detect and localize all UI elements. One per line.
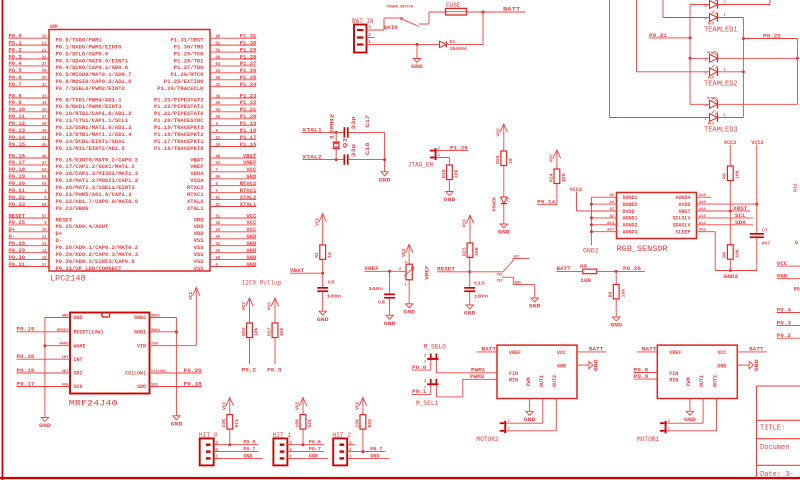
title block xyxy=(757,386,800,479)
svg-text:48: 48 xyxy=(216,114,221,120)
svg-text:RESET: RESET xyxy=(9,213,26,219)
node BATT from right driver VCC xyxy=(737,347,767,353)
svg-text:1: 1 xyxy=(216,456,219,460)
capacitor C6 100n xyxy=(369,271,396,305)
pin P1.23/PIPESTAT2 (36) right xyxy=(154,93,256,103)
svg-text:M_SEL1: M_SEL1 xyxy=(416,400,439,407)
wire right driver OUT2 to MOTOR1 xyxy=(667,399,717,431)
wire left driver OUT1 to MOTOR2 xyxy=(506,399,543,424)
svg-text:P1.22/PIPESTAT1: P1.22/PIPESTAT1 xyxy=(154,104,204,110)
svg-text:M_SEL0: M_SEL0 xyxy=(424,344,447,351)
svg-text:43: 43 xyxy=(216,220,221,226)
pin P1.16/TRACEPKT0 (16) right xyxy=(154,142,256,152)
svg-text:Green: Green xyxy=(707,50,717,54)
svg-text:VBAT: VBAT xyxy=(243,153,257,159)
label TEAMLED1 xyxy=(704,27,738,35)
svg-text:VCC: VCC xyxy=(557,350,566,356)
svg-text:60: 60 xyxy=(216,54,221,60)
wire MRF left ground rail xyxy=(43,318,46,418)
svg-text:P0.14/DCD1/EINT1/SDA1: P0.14/DCD1/EINT1/SDA1 xyxy=(56,139,125,145)
svg-text:R8: R8 xyxy=(722,252,728,258)
svg-text:100n: 100n xyxy=(369,286,384,292)
svg-text:VCC: VCC xyxy=(462,219,468,228)
svg-text:D-: D- xyxy=(56,238,63,244)
wire BATT net top xyxy=(467,5,526,44)
svg-text:DVDD: DVDD xyxy=(623,209,635,215)
schematic frame bottom border xyxy=(0,477,800,479)
svg-text:35: 35 xyxy=(42,107,47,113)
svg-text:GND: GND xyxy=(317,317,329,323)
svg-text:10K: 10K xyxy=(735,249,741,258)
svg-text:P0.2/SCL0/CAP0.0: P0.2/SCL0/CAP0.0 xyxy=(56,51,109,57)
LED TEAMLED3 green xyxy=(705,96,718,109)
svg-text:P0.26: P0.26 xyxy=(623,266,641,272)
svg-text:R0: R0 xyxy=(794,287,800,293)
svg-text:A17: A17 xyxy=(607,229,615,233)
pin P0.30 (15) left xyxy=(9,255,135,265)
svg-text:29: 29 xyxy=(42,68,47,74)
svg-text:61: 61 xyxy=(216,195,221,201)
svg-text:2: 2 xyxy=(44,195,46,201)
svg-text:VCC: VCC xyxy=(295,401,301,410)
pin P1.21/PIPESTAT0 (44) right xyxy=(154,107,256,117)
svg-text:C18: C18 xyxy=(365,142,371,155)
wire SLEEP to GND2 row xyxy=(715,232,757,281)
svg-text:TEAMLED3: TEAMLED3 xyxy=(704,126,738,134)
svg-text:SDASLV: SDASLV xyxy=(672,223,690,229)
pin INT MRF left xyxy=(17,356,83,363)
svg-text:BATT: BATT xyxy=(642,347,657,353)
svg-text:XRST: XRST xyxy=(733,206,748,212)
svg-text:10K: 10K xyxy=(354,419,360,428)
svg-text:GND: GND xyxy=(594,359,600,371)
svg-text:AVDD: AVDD xyxy=(678,202,690,208)
svg-text:SDI: SDI xyxy=(74,371,83,377)
LED TEAMLED2 red xyxy=(705,65,726,80)
svg-text:P1.30: P1.30 xyxy=(240,40,257,46)
svg-text:24: 24 xyxy=(216,68,221,74)
svg-text:P0.7: P0.7 xyxy=(243,447,255,453)
wire P0.26 to R6 xyxy=(615,271,617,284)
svg-text:P1.27/TDO: P1.27/TDO xyxy=(174,65,204,71)
node GND right edge xyxy=(777,274,800,280)
svg-text:BATT: BATT xyxy=(589,347,604,353)
svg-text:P0.12/DSR1/MAT1.0/AD1.3: P0.12/DSR1/MAT1.0/AD1.3 xyxy=(56,125,132,131)
svg-text:P0.22: P0.22 xyxy=(9,195,26,201)
svg-text:SCK: SCK xyxy=(74,384,83,390)
wire M_SEL1 to RIN xyxy=(436,379,497,397)
svg-text:P0.16: P0.16 xyxy=(9,153,26,159)
svg-text:VDD: VDD xyxy=(194,217,204,223)
svg-text:VCC: VCC xyxy=(246,213,257,219)
wire left driver OUT2 to MOTOR2 xyxy=(506,399,556,431)
pin P1.19/TRACEPKT3 (4) right xyxy=(154,121,256,131)
svg-text:Date: 3-: Date: 3- xyxy=(760,471,794,479)
svg-text:Red: Red xyxy=(708,75,714,79)
svg-text:P1.20/TRACESYNC: P1.20/TRACESYNC xyxy=(154,118,204,124)
svg-text:P0.22: P0.22 xyxy=(763,33,781,39)
node GND2 right edge xyxy=(795,240,798,246)
svg-text:R23: R23 xyxy=(461,247,467,256)
svg-text:25: 25 xyxy=(216,248,221,254)
svg-text:GND1: GND1 xyxy=(151,329,161,333)
wire JTAG_EN pin1 to R10 xyxy=(437,158,450,166)
svg-text:P1.26: P1.26 xyxy=(450,145,468,151)
svg-text:P0.3: P0.3 xyxy=(9,54,22,60)
pin P0.28 (13) left xyxy=(9,241,139,251)
wire R9 to XRST and R8 xyxy=(729,181,731,245)
pin A15/SLEEP RGB right xyxy=(675,229,715,236)
svg-text:OUT2: OUT2 xyxy=(552,375,558,387)
svg-text:GND: GND xyxy=(754,359,760,371)
svg-text:31: 31 xyxy=(42,82,47,88)
resistor R27 10k xyxy=(266,323,285,338)
node BATT to right driver VREF xyxy=(637,347,658,353)
svg-text:GND: GND xyxy=(171,421,183,427)
svg-text:MOTOR2: MOTOR2 xyxy=(476,436,499,443)
wire R25 to LED xyxy=(503,166,505,198)
svg-text:INT: INT xyxy=(74,357,83,363)
svg-text:VCC: VCC xyxy=(246,167,257,173)
svg-text:C17: C17 xyxy=(365,115,371,128)
pin P1.20/TRACESYNC (48) right xyxy=(154,114,256,124)
svg-text:58: 58 xyxy=(42,202,47,208)
svg-text:Red: Red xyxy=(708,121,714,125)
svg-text:4n7: 4n7 xyxy=(762,241,771,247)
svg-text:P$1: P$1 xyxy=(497,273,503,277)
svg-text:VCC: VCC xyxy=(355,401,361,410)
pin A17/AGND3 RGB left xyxy=(591,229,637,236)
svg-text:2: 2 xyxy=(424,380,426,384)
svg-text:R26: R26 xyxy=(241,327,247,336)
svg-text:P1.16/TRACEPKT0: P1.16/TRACEPKT0 xyxy=(154,146,204,152)
svg-text:VCC: VCC xyxy=(246,227,257,233)
svg-text:P0.18: P0.18 xyxy=(9,167,26,173)
svg-text:VCC2: VCC2 xyxy=(751,140,763,146)
node P0.2 pullup xyxy=(242,338,256,374)
pin P1.26/RTCK (24) right xyxy=(171,68,257,78)
svg-text:40: 40 xyxy=(216,100,221,106)
connector JTAG_EN xyxy=(408,147,441,168)
svg-text:3: 3 xyxy=(705,105,707,109)
wire battery pin1 to diode xyxy=(367,43,484,46)
svg-text:P0.4: P0.4 xyxy=(9,61,23,67)
svg-text:22: 22 xyxy=(42,47,47,53)
pin CS(LOW) MRF right xyxy=(125,369,202,377)
resistor R5 10k xyxy=(580,264,597,285)
pin P0.8 (33) left xyxy=(9,93,122,103)
node P0.17 to MRF SCK xyxy=(17,381,35,387)
svg-text:18: 18 xyxy=(216,255,221,261)
svg-text:P0.5/MISO0/MAT0.1/AD0.7: P0.5/MISO0/MAT0.1/AD0.7 xyxy=(56,72,132,78)
svg-text:GND: GND xyxy=(246,248,257,254)
svg-text:GND: GND xyxy=(515,282,521,286)
svg-text:P0.2: P0.2 xyxy=(9,47,22,53)
svg-text:A12: A12 xyxy=(699,222,707,226)
svg-text:P0.4/SCK0/CAP0.1/AD0.6: P0.4/SCK0/CAP0.1/AD0.6 xyxy=(56,65,129,71)
svg-text:10K: 10K xyxy=(474,247,480,256)
svg-text:GND: GND xyxy=(74,315,83,321)
LED TEAMLED1 red xyxy=(705,11,726,26)
svg-text:R5: R5 xyxy=(580,264,587,270)
pin SCK MRF left xyxy=(17,384,83,391)
svg-text:38: 38 xyxy=(42,121,47,127)
jumper M_SEL0 xyxy=(424,344,447,365)
capacitor C18 33p xyxy=(344,142,385,164)
wire R10 to ground xyxy=(448,180,450,192)
node P0.2 right edge xyxy=(777,333,800,339)
svg-text:33p: 33p xyxy=(351,116,357,129)
node P0.14 xyxy=(537,184,557,206)
node VCC2 above R9 xyxy=(724,140,736,166)
svg-text:GND: GND xyxy=(246,234,257,240)
svg-text:VREF: VREF xyxy=(190,164,203,170)
svg-text:VSS: VSS xyxy=(194,252,204,258)
svg-text:P0.17: P0.17 xyxy=(9,160,26,166)
svg-text:P0.3: P0.3 xyxy=(267,367,281,373)
node SCL xyxy=(735,213,746,219)
svg-text:P0.18/CAP1.3/MISO1/MAT1.3: P0.18/CAP1.3/MISO1/MAT1.3 xyxy=(56,171,139,177)
svg-text:P0.30: P0.30 xyxy=(9,255,26,261)
svg-text:VCC: VCC xyxy=(221,401,227,410)
node P0.1 xyxy=(412,385,431,395)
svg-text:C5: C5 xyxy=(328,280,335,286)
pin A7/DVDD RGB left xyxy=(577,208,635,215)
svg-text:1: 1 xyxy=(289,456,292,460)
pin P0.22 (2) left xyxy=(9,195,139,205)
svg-text:GND: GND xyxy=(370,453,379,459)
svg-text:BAT0: BAT0 xyxy=(383,25,397,31)
svg-text:2: 2 xyxy=(705,118,707,122)
pin P0.29 (14) left xyxy=(9,248,139,258)
node P0.18 to MRF SDO xyxy=(184,381,202,387)
ground below reset switch xyxy=(529,298,541,310)
svg-text:P0.17: P0.17 xyxy=(17,381,35,387)
svg-text:RESET: RESET xyxy=(57,329,69,333)
svg-text:A14: A14 xyxy=(607,222,615,226)
svg-text:C15: C15 xyxy=(474,280,485,286)
node RESET xyxy=(437,255,471,287)
wire crystal ground rail xyxy=(383,132,386,171)
svg-text:10k: 10k xyxy=(279,327,285,336)
svg-text:P0.19: P0.19 xyxy=(9,174,26,180)
svg-text:MOTOR1: MOTOR1 xyxy=(637,436,660,443)
svg-text:R9: R9 xyxy=(722,173,728,179)
svg-text:R25: R25 xyxy=(495,155,501,164)
svg-text:P1.16: P1.16 xyxy=(240,142,257,148)
node P0.21 xyxy=(649,33,690,39)
svg-text:GND2: GND2 xyxy=(583,247,599,254)
svg-text:AGND4: AGND4 xyxy=(675,195,690,201)
pin P0.2 (22) left xyxy=(9,47,109,57)
svg-text:RIN: RIN xyxy=(509,377,518,383)
svg-text:P1.24/TRACECLK: P1.24/TRACECLK xyxy=(157,86,204,92)
svg-text:46: 46 xyxy=(42,153,47,159)
pin P0.15 (45) left xyxy=(9,142,125,152)
svg-text:PWM: PWM xyxy=(686,377,692,386)
svg-text:VCC: VCC xyxy=(241,302,247,311)
node VCC2 above C7 xyxy=(751,140,763,233)
svg-text:P0.0/TXD0/PWM1: P0.0/TXD0/PWM1 xyxy=(56,38,102,44)
svg-text:DGND2: DGND2 xyxy=(623,202,638,208)
pin P1.27/TDO (64) right xyxy=(174,61,256,71)
svg-text:VSS: VSS xyxy=(194,245,204,251)
pin A10/XRST RGB right xyxy=(678,208,750,215)
svg-text:VREF: VREF xyxy=(243,160,256,166)
svg-text:VSS: VSS xyxy=(194,259,204,265)
svg-text:3: 3 xyxy=(705,5,707,9)
svg-text:P1.28/TDI: P1.28/TDI xyxy=(174,58,204,64)
node P0.9 to right driver RIN xyxy=(634,374,658,380)
svg-text:62: 62 xyxy=(216,202,221,208)
wire C6 to ground xyxy=(389,299,391,316)
svg-text:XTAL2: XTAL2 xyxy=(187,199,204,205)
pin VDD (23) right xyxy=(194,227,257,237)
svg-text:10: 10 xyxy=(42,227,47,233)
svg-text:R21: R21 xyxy=(307,419,313,428)
svg-text:TEAMLED2: TEAMLED2 xyxy=(704,80,738,88)
svg-text:9: 9 xyxy=(44,220,46,226)
pin P0.31 (17) left xyxy=(9,262,122,272)
svg-text:20: 20 xyxy=(216,34,221,40)
schematic frame left border xyxy=(2,0,4,480)
svg-text:10K: 10K xyxy=(735,170,741,179)
resistor R1 10 xyxy=(314,245,333,260)
power VCC above trimmer xyxy=(401,244,413,264)
svg-text:P0.5: P0.5 xyxy=(9,68,22,74)
svg-text:GND: GND xyxy=(62,315,70,319)
svg-text:P1.19/TRACEPKT3: P1.19/TRACEPKT3 xyxy=(154,125,204,131)
svg-text:P0.8: P0.8 xyxy=(9,93,22,99)
svg-text:P0.25/AD0.4/AOUT: P0.25/AD0.4/AOUT xyxy=(56,224,109,230)
node XTAL2 xyxy=(302,155,344,162)
pin VDDA (7) right xyxy=(190,167,257,177)
svg-text:BATT: BATT xyxy=(482,347,497,353)
svg-text:GND: GND xyxy=(717,363,726,369)
capacitor C5 100n xyxy=(317,280,341,300)
svg-text:VCC: VCC xyxy=(549,154,555,163)
svg-text:VSS: VSS xyxy=(194,266,204,272)
svg-text:P0.13: P0.13 xyxy=(9,128,26,134)
svg-text:POWER_SWITCH: POWER_SWITCH xyxy=(387,6,413,10)
svg-text:R15: R15 xyxy=(234,419,240,428)
node P1.26 xyxy=(437,145,469,151)
svg-text:VREF: VREF xyxy=(669,350,681,356)
svg-text:P0.3/SDA0/MAT0.0/EINT1: P0.3/SDA0/MAT0.0/EINT1 xyxy=(56,58,129,64)
svg-text:GND2: GND2 xyxy=(724,274,738,280)
svg-text:VDDA: VDDA xyxy=(190,171,204,177)
svg-text:VDD: VDD xyxy=(194,224,204,230)
svg-text:VCC: VCC xyxy=(267,302,273,311)
svg-text:45: 45 xyxy=(42,142,47,148)
svg-text:BATT: BATT xyxy=(503,5,521,12)
module MRF24J40 body xyxy=(69,313,150,409)
svg-text:P0.10: P0.10 xyxy=(9,107,26,113)
svg-text:P0.31: P0.31 xyxy=(9,262,26,268)
svg-text:P0.16/EINT0/MAT0.2/CAP0.2: P0.16/EINT0/MAT0.2/CAP0.2 xyxy=(56,157,139,163)
svg-text:30: 30 xyxy=(42,75,47,81)
svg-text:GND: GND xyxy=(246,241,257,247)
svg-text:37: 37 xyxy=(42,114,47,120)
power VCC above R27 xyxy=(267,298,279,323)
svg-text:Green: Green xyxy=(707,96,717,100)
svg-text:A15: A15 xyxy=(699,229,707,233)
pin P1.31/TRST (20) right xyxy=(171,34,257,44)
svg-text:11: 11 xyxy=(42,234,47,240)
svg-text:C6: C6 xyxy=(378,300,385,306)
pin P0.17 (47) left xyxy=(9,160,135,170)
ground below C15 xyxy=(464,305,476,317)
svg-text:A5: A5 xyxy=(609,194,614,198)
svg-text:50: 50 xyxy=(216,234,221,240)
svg-text:GND: GND xyxy=(246,174,257,180)
svg-text:P1.24: P1.24 xyxy=(240,82,257,88)
svg-text:AGND1: AGND1 xyxy=(623,216,638,222)
svg-text:TEAMLED1: TEAMLED1 xyxy=(704,27,738,35)
svg-text:A10: A10 xyxy=(699,208,707,212)
svg-text:P0.0: P0.0 xyxy=(9,34,22,40)
svg-text:P0.9: P0.9 xyxy=(634,374,648,380)
wire MRF right ground rail xyxy=(175,318,178,416)
svg-text:TITLE:: TITLE: xyxy=(760,425,785,433)
svg-text:63: 63 xyxy=(216,160,221,166)
svg-text:33p: 33p xyxy=(351,144,357,157)
svg-text:P1.29/TCK: P1.29/TCK xyxy=(174,51,205,57)
svg-text:3: 3 xyxy=(289,442,292,446)
svg-text:P0.23: P0.23 xyxy=(9,202,26,208)
svg-text:VCC: VCC xyxy=(401,248,407,257)
svg-text:27: 27 xyxy=(42,61,47,67)
svg-text:16: 16 xyxy=(216,142,221,148)
ground right driver PWM pin xyxy=(684,399,696,423)
ground below C6 xyxy=(384,315,396,327)
svg-text:VIN: VIN xyxy=(151,343,159,347)
connector MOTOR2 xyxy=(476,420,509,443)
svg-text:64: 64 xyxy=(216,61,221,67)
svg-text:P0.20: P0.20 xyxy=(184,368,202,374)
svg-text:PWM3: PWM3 xyxy=(470,374,484,380)
connector HIT_0 with resistor R15 xyxy=(199,398,263,466)
svg-text:59: 59 xyxy=(216,174,221,180)
wire M_SEL0 to FIN xyxy=(436,360,497,373)
ground crystal xyxy=(379,172,391,184)
LED TEAMLED3 red xyxy=(705,111,726,126)
label R12 right edge xyxy=(793,183,800,292)
svg-text:P0.13/DTR1/MAT1.1/AD1.4: P0.13/DTR1/MAT1.1/AD1.4 xyxy=(56,132,132,138)
svg-text:54: 54 xyxy=(42,174,47,180)
node BATT near R5 xyxy=(557,266,583,272)
pin VBAT (49) right xyxy=(190,153,257,163)
svg-text:VCC: VCC xyxy=(314,217,320,226)
svg-text:P1.19: P1.19 xyxy=(240,121,257,127)
node P0.16 to MRF SDI xyxy=(17,368,35,374)
svg-text:23: 23 xyxy=(216,227,221,233)
pin RTXC2 (5) right xyxy=(187,181,256,191)
svg-text:2: 2 xyxy=(216,449,219,453)
capacitor C17 33p xyxy=(344,115,385,138)
svg-text:P0.14: P0.14 xyxy=(537,200,556,206)
svg-text:3: 3 xyxy=(405,261,407,265)
jumper M_SEL1 xyxy=(416,379,439,407)
svg-text:P0.29/AD0.2/CAP0.3/MAT0.3: P0.29/AD0.2/CAP0.3/MAT0.3 xyxy=(56,252,139,258)
resistor R23 10K xyxy=(461,243,480,258)
svg-text:P0.28: P0.28 xyxy=(9,241,26,247)
svg-text:P0.22/AD1.7/CAP0.0/MAT0.0: P0.22/AD1.7/CAP0.0/MAT0.0 xyxy=(56,199,139,205)
LED TEAMLED2 green xyxy=(705,50,718,63)
connector HIT_2 with resistor R20 xyxy=(332,398,389,466)
svg-text:GND: GND xyxy=(403,309,415,315)
svg-text:P0.16: P0.16 xyxy=(17,368,35,374)
